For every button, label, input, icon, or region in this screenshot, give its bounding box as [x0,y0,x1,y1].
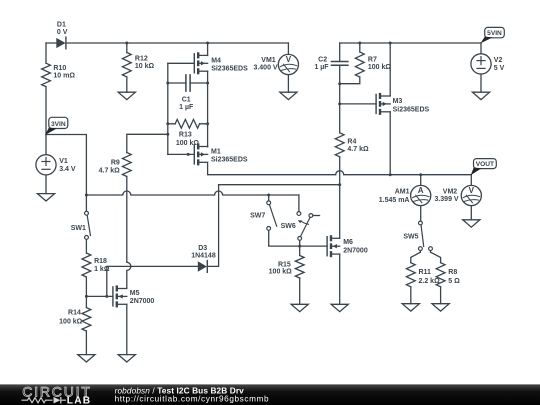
transistor M3 [376,93,429,115]
svg-text:LAB: LAB [67,396,92,405]
wire SW6 throw stub [313,215,320,217]
svg-text:10 mΩ: 10 mΩ [53,73,75,80]
svg-text:100 kΩ: 100 kΩ [368,64,392,71]
junction 5V rail M3 drain [389,42,392,45]
wire M6 source to ground [339,254,341,304]
wire M4 drain up [207,43,209,55]
junction 5V rail R7 [358,42,361,45]
ground VM2 [463,220,480,227]
wire R18 to R14 junction [85,277,87,308]
svg-text:C1: C1 [182,96,191,103]
svg-text:Si2365EDS: Si2365EDS [393,106,430,113]
wire D3 cathode up with corner [208,185,219,267]
wire VM2 to ground [470,206,472,220]
ground R15 [291,304,308,311]
wire R11 to ground [410,287,412,304]
wire R14 to ground [85,331,87,355]
wire 5V top rail [340,42,481,44]
svg-text:3.400 V: 3.400 V [253,65,277,72]
resistor R14 [59,308,91,331]
junction D3 line at R4 bottom [338,183,341,186]
junction C1 left [166,82,169,85]
capacitor C1 [179,75,194,111]
resistor R18 [82,253,110,277]
wire M3 gate [340,103,376,105]
flag 5VIN [481,27,505,43]
voltage source V1 [36,155,76,175]
switch SW7 [250,201,277,230]
ground R11 [402,304,419,311]
wire SDA bus down to SW6 [298,195,300,212]
capacitor C2 [314,57,347,72]
wire C2 top [339,43,341,62]
svg-text:SW6: SW6 [281,223,296,230]
flag VOUT [471,159,497,176]
ground V2 [472,92,489,99]
junction M3 gate [338,102,341,105]
svg-text:2N7000: 2N7000 [343,248,368,255]
svg-text:R12: R12 [135,56,148,63]
wire D3 anode branch [107,266,198,296]
svg-text:10 kΩ: 10 kΩ [135,63,155,70]
junction R13 left [166,122,169,125]
svg-text:Si2365EDS: Si2365EDS [211,65,248,72]
wire SW1 to bus [85,195,87,211]
svg-text:VOUT: VOUT [476,161,494,168]
svg-text:4.7 kΩ: 4.7 kΩ [347,146,369,153]
svg-text:5VIN: 5VIN [487,30,502,37]
wire SW5 right throw to R8 [431,250,441,262]
svg-text:R11: R11 [419,269,432,276]
svg-text:3.4 V: 3.4 V [59,166,76,173]
wire M4 gate [168,62,195,64]
svg-text:1.545 mA: 1.545 mA [379,197,410,204]
svg-text:http://circuitlab.com/cynr96gb: http://circuitlab.com/cynr96gbscmmb [115,395,270,404]
transistor M4 [194,52,248,74]
svg-text:R7: R7 [368,57,377,64]
junction SDA bus at SW7 [267,194,270,197]
wire R9 bottom to M5 drain with hop over D3 wire [127,177,131,289]
voltmeter VM1 [253,54,298,74]
svg-text:R9: R9 [111,159,120,166]
wire SW5 left throw to R11 [411,250,421,262]
wire 3.4V top rail [46,42,288,44]
wire VM1 to ground [287,75,289,92]
junction M5 gate D3 branch [105,295,108,298]
junction on M1 gate wire [187,153,190,156]
resistor R12 [122,53,154,77]
svg-text:R13: R13 [179,131,192,138]
wire V2 to ground [480,74,482,92]
ground V1 [37,194,54,201]
wire VM2 drop [470,175,472,186]
wire R15 leads [299,246,301,304]
wire V1 bottom [45,175,47,194]
wire C2 bottom to R4 [339,65,341,133]
transistor M5 [113,285,155,307]
switch SW6 [281,212,313,241]
svg-text:M1: M1 [211,148,221,155]
junction R13 right [206,122,209,125]
wire V1 top [45,135,47,155]
svg-text:R4: R4 [347,139,356,146]
junction VOUT line M3 source [389,173,392,176]
svg-text:Si2365EDS: Si2365EDS [211,157,248,164]
wire SW6 common to bus [299,240,301,246]
svg-text:100 kΩ: 100 kΩ [269,269,293,276]
svg-text:1N4148: 1N4148 [191,253,216,260]
svg-text:SW1: SW1 [71,225,86,232]
svg-text:VM1: VM1 [261,57,276,64]
svg-text:1 kΩ: 1 kΩ [94,266,110,273]
ground R12 [118,92,135,99]
svg-text:SW7: SW7 [250,213,265,220]
svg-text:0 V: 0 V [57,29,68,36]
ground R8 [432,304,449,311]
svg-text:AM1: AM1 [395,189,410,196]
svg-text:M4: M4 [211,57,221,64]
wire 3.4V rail left vertical [45,43,47,63]
resistor R15 [269,256,304,279]
transistor M6 [327,235,368,257]
svg-text:1 µF: 1 µF [314,64,329,71]
wire AM1 top [420,175,422,186]
junction top rail M4 drain [206,42,209,45]
wire M3 drain up [389,43,391,96]
wire gate rail left [167,63,169,154]
wire SW1 to R18 [85,239,87,253]
svg-text:D3: D3 [198,245,207,252]
junction R18 R14 M5 gate [85,295,88,298]
svg-text:R18: R18 [94,258,107,265]
svg-text:5 V: 5 V [494,65,505,72]
resistor R13 [168,119,208,146]
switch SW5 [403,221,432,250]
wire M5 gate [86,295,113,297]
wire V2 drop [480,43,482,54]
wire D3 line to M6 drain node [219,184,340,186]
svg-text:VM2: VM2 [443,188,458,195]
svg-text:3VIN: 3VIN [51,121,66,128]
wire SDA bus with hops [86,191,299,195]
svg-text:4.7 kΩ: 4.7 kΩ [99,167,121,174]
wire M5 drain stub up [126,287,128,289]
resistor R7 [355,52,391,77]
svg-text:A: A [418,186,424,195]
svg-text:V: V [286,55,292,64]
wire AM1 to SW5 [420,206,422,221]
ground M6 [331,304,348,311]
svg-text:R14: R14 [68,309,81,316]
ground M5 [118,355,135,362]
junction top rail R12 [125,42,128,45]
wire SW7 top [268,195,270,201]
svg-text:2N7000: 2N7000 [130,298,155,305]
svg-text:100 kΩ: 100 kΩ [176,140,200,147]
flag 3VIN [45,117,68,135]
wire R7 leads [340,43,360,84]
svg-text:R10: R10 [53,65,66,72]
svg-text:3.399 V: 3.399 V [434,196,458,203]
junction SDA bus at SW1 [85,194,88,197]
wire R12 leads [126,43,128,92]
diode D1 [56,21,67,49]
transistor M1 [194,143,248,165]
wire M1 gate [168,153,195,155]
wire R9 top link [127,134,168,152]
wire VOUT line with hop over R4 column [208,163,472,174]
svg-text:1 µF: 1 µF [179,104,194,111]
diode D3 [191,245,216,272]
svg-text:SW5: SW5 [403,233,418,240]
wire M3 source down [389,112,391,175]
svg-text:V: V [469,186,475,195]
resistor R4 [335,133,369,157]
svg-text:M5: M5 [130,290,140,297]
wire R4 bottom to M6 drain [339,157,341,239]
wire below R10 to 3VIN node [45,87,47,135]
junction R9 wire meets gate rail [166,133,169,136]
wire M5 source to ground [126,304,128,354]
junction VOUT line AM1 [419,173,422,176]
voltage source V2 [471,54,505,74]
junction C1 right [206,82,209,85]
ground VM1 [280,92,297,99]
junction C2 R7 bottom [338,82,341,85]
wire C1 leads [168,82,208,84]
svg-text:M3: M3 [393,98,403,105]
svg-text:V2: V2 [494,57,503,64]
junction gate bus SW6 R15 [298,245,301,248]
resistor R10 [42,63,76,86]
svg-text:5 Ω: 5 Ω [448,278,460,285]
svg-text:100 kΩ: 100 kΩ [59,318,83,325]
ammeter AM1 [379,185,431,205]
footer bar [0,384,540,405]
ground R14 [78,355,95,362]
svg-text:R8: R8 [448,269,457,276]
svg-text:D1: D1 [57,21,66,28]
svg-text:V1: V1 [59,158,68,165]
wire gate bus SW7 to M6 [269,230,327,246]
wire M4 source down through C1 R13 to M1 drain [207,71,209,147]
voltmeter VM2 [434,185,481,205]
svg-text:C2: C2 [318,57,327,64]
resistor R11 [406,263,440,287]
wire VM1 drop [287,43,289,54]
svg-text:M6: M6 [343,239,353,246]
resistor R8 [436,263,460,287]
switch SW1 [71,211,91,239]
wire R8 to ground [440,287,442,304]
svg-text:R15: R15 [278,261,291,268]
resistor R9 [99,153,132,177]
wire 3VIN to SW1 column [46,135,86,195]
